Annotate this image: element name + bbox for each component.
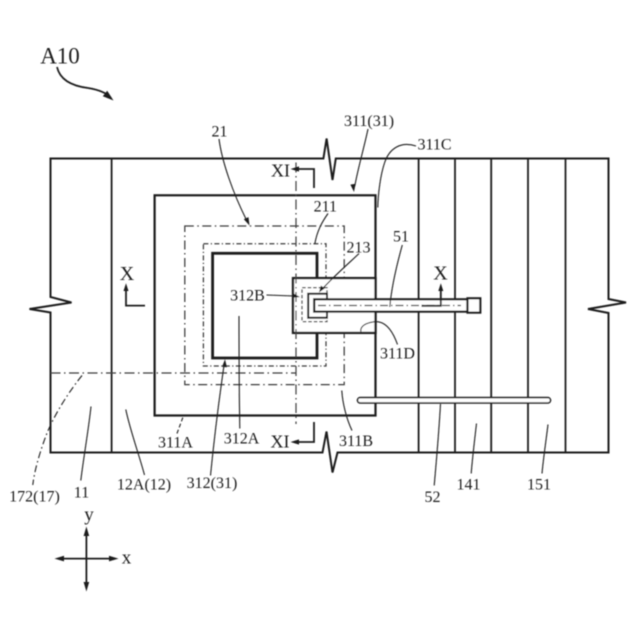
svg-text:y: y (84, 505, 94, 526)
leader 312(31) (211, 364, 225, 476)
section marker XI top (298, 169, 314, 188)
svg-text:141: 141 (457, 477, 481, 494)
svg-text:x: x (122, 548, 132, 569)
leader 211 (315, 214, 328, 245)
arrowhead X right (438, 283, 443, 291)
svg-text:X: X (120, 263, 135, 285)
arrowhead 21 (244, 217, 250, 225)
hidden rect 211 (dashed) (203, 244, 326, 366)
leader A10 (57, 67, 111, 98)
arrowhead A10 (103, 91, 114, 101)
arrowhead axis down (84, 582, 90, 592)
arrowhead 213 (319, 286, 325, 293)
svg-text:213: 213 (347, 240, 371, 257)
leader 311(31) (355, 129, 368, 186)
svg-text:172(17): 172(17) (9, 489, 60, 506)
leader 51 (390, 245, 403, 307)
svg-text:X: X (433, 263, 448, 285)
leader 172(17) dash-dot (33, 376, 82, 486)
axis cross (85, 533, 87, 585)
svg-text:11: 11 (74, 485, 89, 502)
wire vertical line 151 column right (565, 159, 567, 453)
leader 312B (267, 295, 295, 296)
collar 312B (solid C) (308, 294, 327, 318)
wire vertical line 52 column (418, 159, 420, 453)
svg-text:51: 51 (393, 229, 409, 246)
phantom line 17 (horizontal dash-dot) (51, 372, 297, 374)
section marker XI bottom (298, 422, 314, 442)
substrate outer rectangle with break zigzags (30, 139, 627, 473)
svg-text:12A(12): 12A(12) (117, 477, 171, 494)
svg-text:52: 52 (425, 489, 441, 506)
svg-text:311A: 311A (158, 435, 193, 452)
wire vertical line 141 column right (490, 159, 492, 453)
leader 151 (542, 425, 548, 474)
wire vertical line 11/12A boundary (111, 159, 113, 453)
svg-text:XI: XI (271, 161, 290, 181)
svg-text:151: 151 (527, 477, 551, 494)
arrowhead XI top (291, 166, 300, 171)
arrowhead axis left (55, 556, 65, 562)
notch region 311D (white filled) (293, 278, 376, 333)
svg-text:XI: XI (271, 432, 290, 452)
svg-text:21: 21 (212, 124, 228, 141)
section line XI (vertical dash-dot) (295, 163, 297, 425)
leader 141 (471, 424, 476, 474)
arrowhead axis right (109, 556, 119, 562)
leader 311D (361, 322, 398, 345)
svg-text:312(31): 312(31) (187, 475, 238, 492)
leader 213 (322, 254, 359, 290)
svg-text:311C: 311C (417, 137, 451, 154)
svg-text:312A: 312A (224, 431, 260, 448)
leader 311A (dashed) (177, 417, 183, 434)
arrowhead 312B (293, 293, 300, 297)
leader 311B (342, 391, 352, 431)
leader 21 (219, 139, 247, 220)
svg-text:311(31): 311(31) (344, 113, 394, 130)
phantom rect 21 (dash-dot) (185, 226, 344, 385)
arrowhead XI bottom (291, 439, 300, 444)
electrode square 311 (155, 195, 376, 415)
leader 11 (81, 407, 91, 481)
wire vertical line 141 column left (454, 159, 456, 453)
leader 52 (434, 404, 440, 486)
svg-text:312B: 312B (230, 288, 265, 305)
lead bar 51 end box (468, 298, 481, 312)
lead bar 51 (white filled) (314, 299, 467, 311)
wire vertical line 151 column left (527, 159, 529, 453)
arrowhead X left (124, 283, 129, 291)
leader 312A (238, 316, 241, 429)
arrowhead 311(31) (350, 184, 355, 192)
thin lead 52 (white filled rounded) (358, 398, 551, 403)
arrowhead axis up (84, 527, 90, 537)
electrode square 312 (bold) (213, 253, 317, 358)
arrowhead 312(31) (222, 359, 227, 367)
svg-text:311B: 311B (339, 433, 373, 450)
svg-text:A10: A10 (40, 44, 80, 69)
section marker X left (126, 291, 145, 306)
leader 12A(12) (126, 410, 145, 476)
section centerline through bar 51 (318, 305, 461, 307)
svg-text:311D: 311D (380, 346, 415, 363)
svg-text:211: 211 (314, 199, 337, 216)
section marker X right (422, 290, 441, 306)
leader 311C (378, 145, 416, 208)
hidden collar 213 (dashed C) (302, 288, 327, 322)
